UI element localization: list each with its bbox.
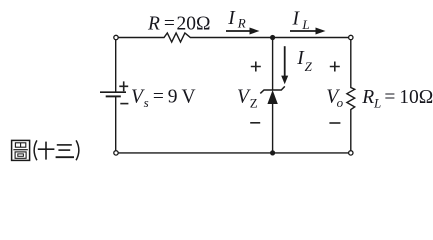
svg-text:Z: Z	[305, 59, 313, 74]
svg-text:Z: Z	[250, 96, 258, 111]
svg-text:R: R	[237, 15, 246, 30]
svg-text:I: I	[227, 8, 236, 29]
svg-text:= 9 V: = 9 V	[149, 87, 196, 108]
svg-text:R = 20Ω: R = 20Ω	[147, 13, 210, 34]
svg-text:R: R	[361, 87, 374, 108]
svg-text:= 10Ω: = 10Ω	[381, 87, 433, 108]
svg-text:L: L	[301, 17, 309, 32]
svg-text:s: s	[144, 95, 149, 110]
svg-text:I: I	[292, 9, 301, 30]
svg-text:o: o	[337, 95, 344, 110]
